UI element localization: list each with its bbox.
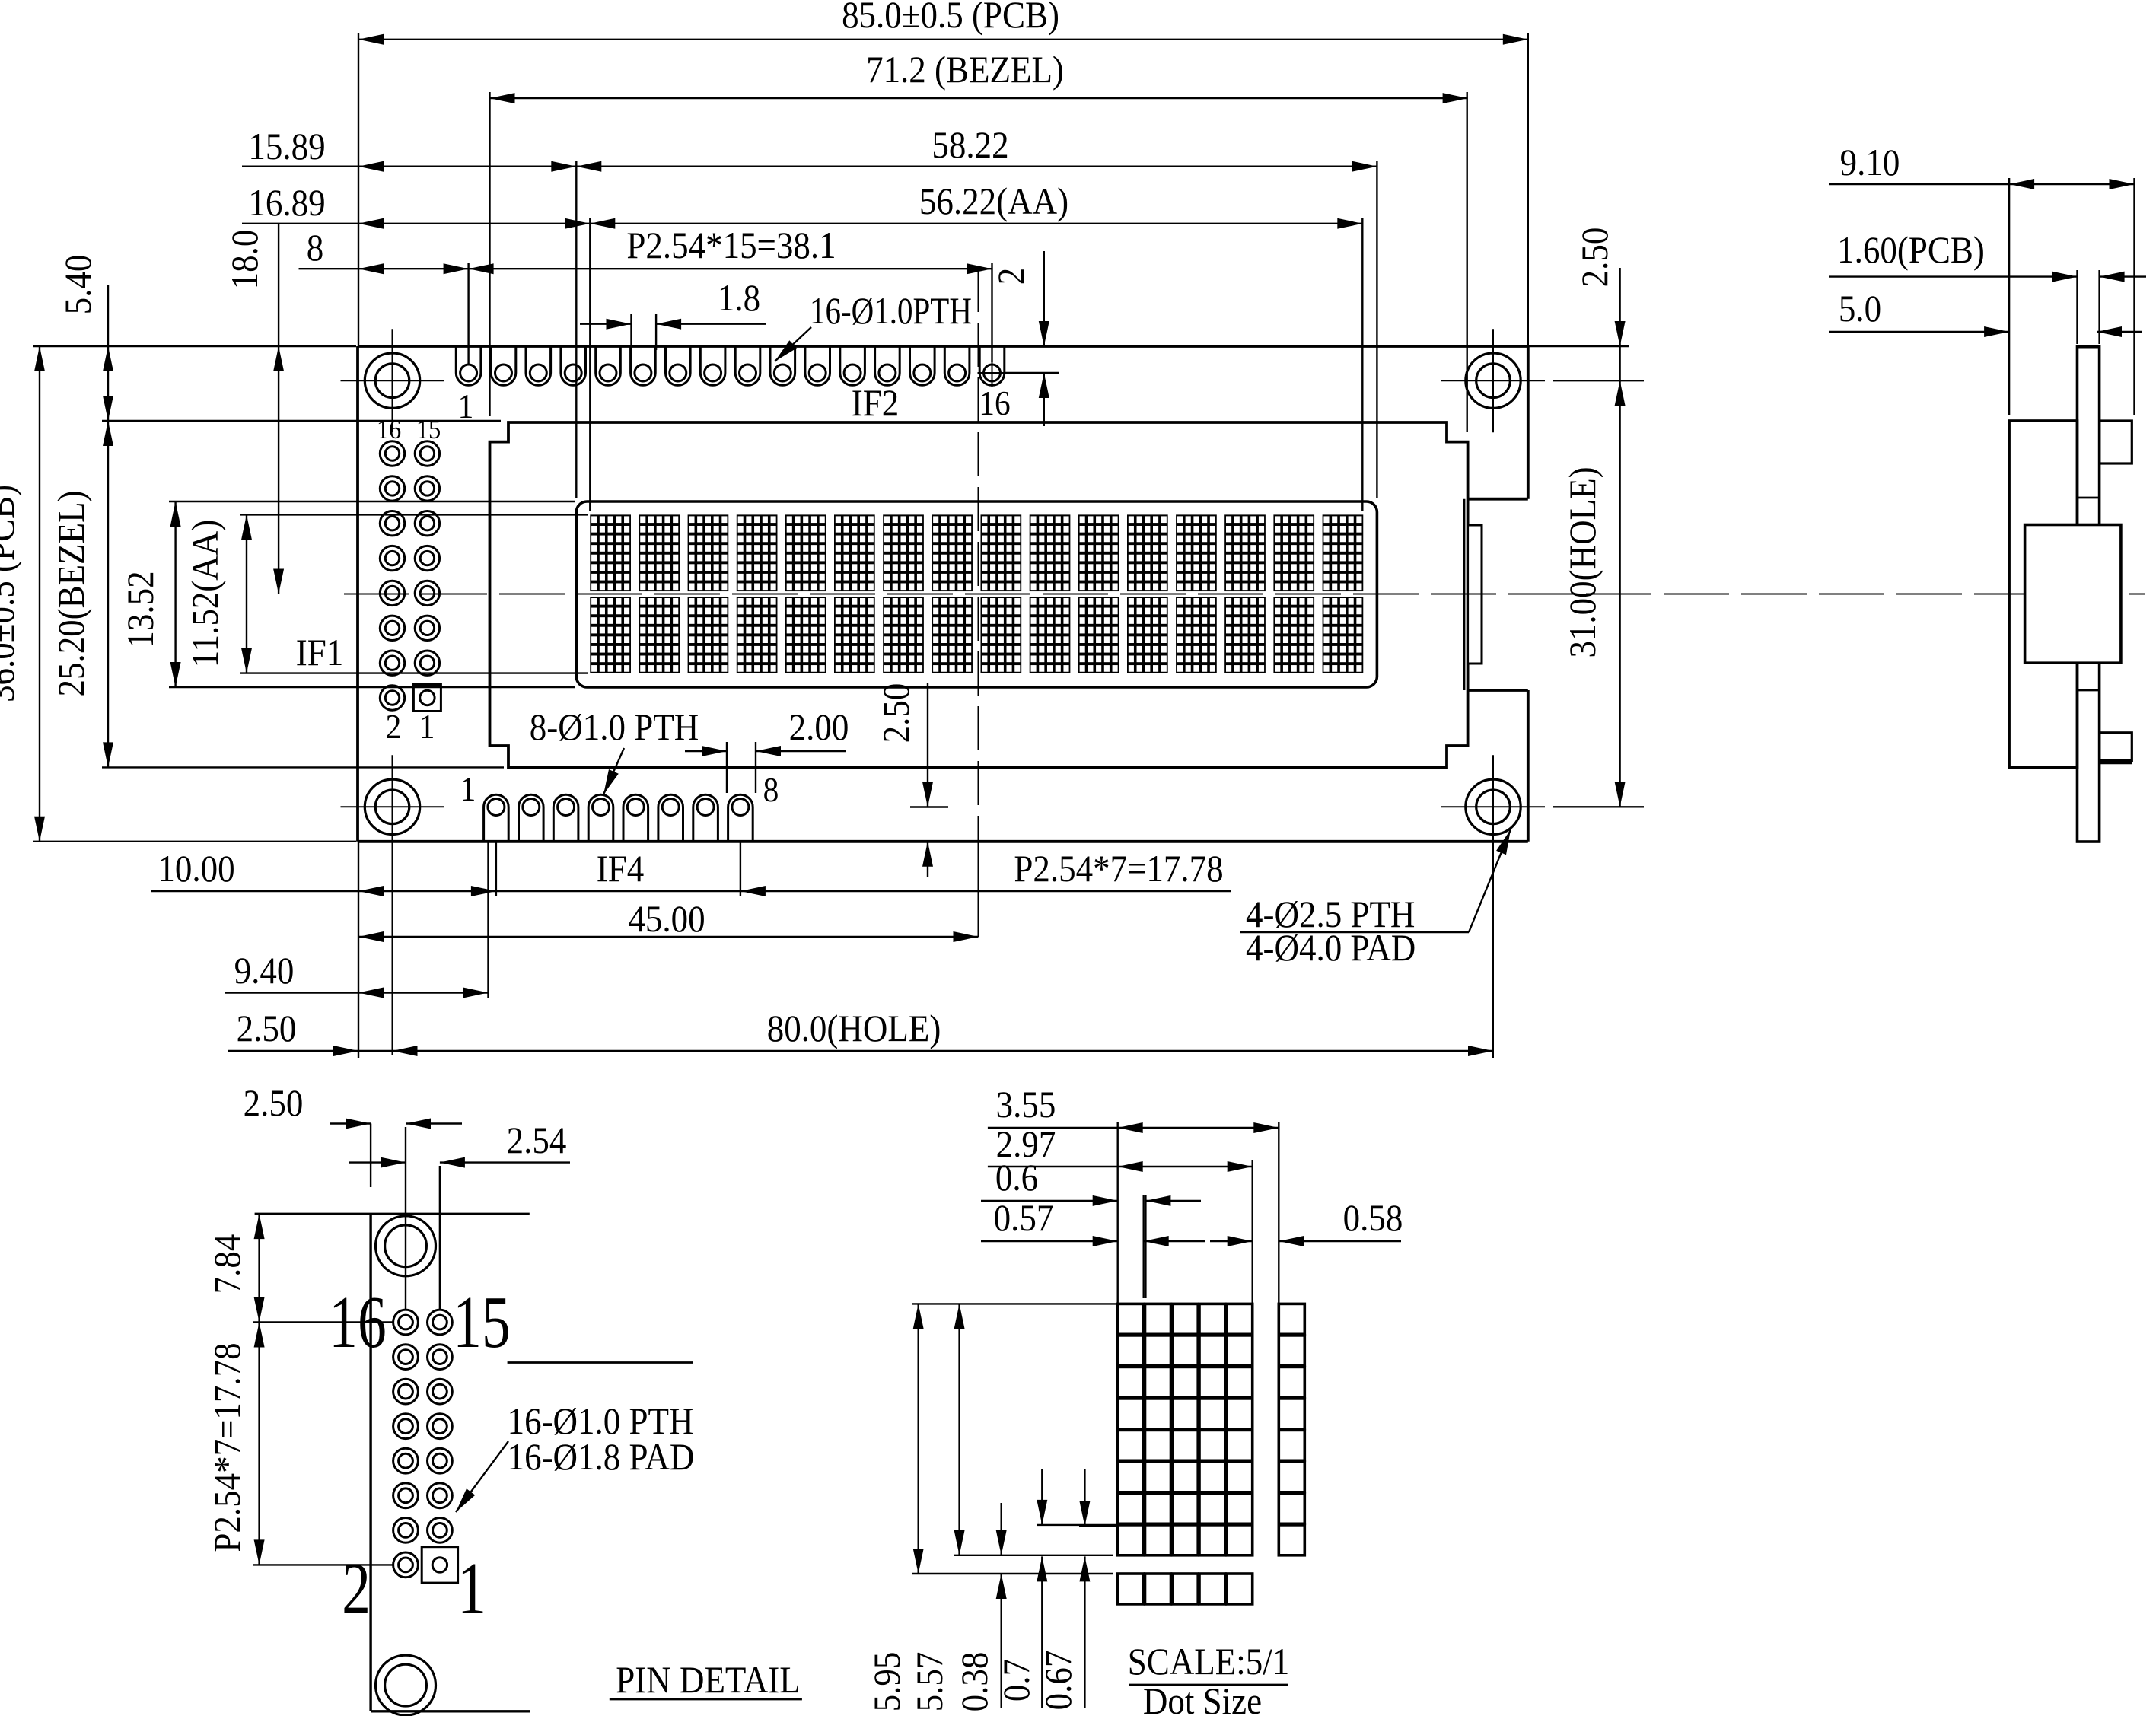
mounting hole bottom-right (2.5 PTH / 4.0 PAD)	[1466, 779, 1521, 834]
svg-text:1.8: 1.8	[718, 278, 760, 320]
IF2 pad 11	[805, 346, 830, 385]
pin detail pin 11 pad	[428, 1379, 453, 1404]
IF2 pad 16	[979, 346, 1005, 385]
svg-text:1: 1	[419, 708, 435, 746]
svg-text:4-Ø4.0 PAD: 4-Ø4.0 PAD	[1246, 928, 1416, 969]
dim 13.52 vertical	[174, 501, 176, 687]
pin detail pin 16 pad	[393, 1310, 419, 1335]
dim 2.50 (PCB top to hole center) and dim 31.00(HOLE) shared vertical line	[1619, 268, 1620, 807]
pin detail: reference line segment	[508, 1361, 693, 1364]
dim 5.95 (character pitch vertical)	[917, 1304, 919, 1574]
svg-text:0.58: 0.58	[1343, 1198, 1403, 1240]
IF4 pad 8	[728, 794, 753, 842]
svg-text:2: 2	[991, 268, 1033, 285]
svg-text:25.20(BEZEL): 25.20(BEZEL)	[51, 490, 93, 696]
svg-text:16-Ø1.8 PAD: 16-Ø1.8 PAD	[508, 1437, 695, 1479]
dot size detail: 5x8 dot grid	[1118, 1304, 1144, 1334]
svg-text:16.89: 16.89	[248, 183, 325, 224]
svg-text:13.52: 13.52	[120, 571, 162, 648]
dim 2.50 (IF4 pad row to PCB bottom) vertical	[910, 806, 948, 807]
dim 5.0 (bezel stack thickness)	[1829, 331, 2009, 333]
side view: elastomer connector tab block	[2025, 525, 2121, 664]
dim 1.60(PCB) thickness	[1829, 275, 2078, 277]
extension line bezel left edge (bottom)	[487, 842, 489, 998]
pin detail pin 14 pad	[393, 1345, 419, 1370]
dot size detail: adjacent column of next character	[1279, 1304, 1304, 1334]
svg-text:2.50: 2.50	[1575, 228, 1616, 288]
svg-text:1.60(PCB): 1.60(PCB)	[1837, 230, 1985, 272]
extension line IF2 pin16	[991, 263, 992, 362]
LCD glass edge at right connector notch	[1463, 499, 1465, 690]
dim 0.38 (cursor row gap)	[1000, 1503, 1002, 1555]
svg-text:P2.54*7=17.78: P2.54*7=17.78	[1014, 848, 1223, 890]
IF1 pin 9 pad	[415, 546, 439, 570]
dim 0.6 (dot pitch)	[981, 1200, 1118, 1202]
dim 71.2 (BEZEL)	[490, 97, 1468, 99]
extension line PCB top edge (left)	[33, 345, 356, 347]
pin detail pin 9 pad	[428, 1414, 453, 1439]
pin detail pin 15 pad	[428, 1310, 453, 1335]
pin detail pin 12 pad	[393, 1379, 419, 1404]
svg-text:9.40: 9.40	[234, 950, 295, 992]
dim 9.10 (module thickness)	[1829, 183, 2135, 185]
dot detail extension lines (left dims)	[912, 1303, 1118, 1304]
IF1 pin 2 pad	[380, 686, 404, 710]
IF4 pad 5	[623, 794, 648, 842]
extension line bezel right edge (top)	[1466, 92, 1467, 432]
svg-text:85.0±0.5 (PCB): 85.0±0.5 (PCB)	[842, 0, 1059, 37]
IF2 pad 16 center cross mark	[978, 372, 1007, 374]
pin detail pin 5 pad	[428, 1483, 453, 1508]
IF2 pad 1	[456, 346, 481, 385]
front view: PCB outline (85.0 x 36.0) with right-edge connector notch	[358, 345, 1528, 348]
display window opening (58.22 x 13.52) rounded rect	[576, 501, 1377, 687]
dim 0.67 (dot height)	[1084, 1469, 1085, 1527]
dim 18.0 (PCB top to display centerline)	[278, 224, 279, 594]
dot size detail: cursor row below	[1118, 1574, 1144, 1604]
IF1 pin 4 pad	[380, 651, 404, 675]
IF4 pad 4	[588, 794, 613, 842]
elastomer connector tab on bezel right edge	[1468, 525, 1482, 664]
dim P2.54*7=17.78 (IF4 pitch)	[496, 890, 1231, 892]
extension line display window bottom (left)	[169, 686, 575, 688]
dim 9.40 (PCB edge to bezel edge)	[225, 992, 489, 993]
IF4 pad 3	[553, 794, 578, 842]
extension line PCB top right corner	[1528, 345, 1629, 347]
pin detail: mounting hole bottom	[376, 1655, 436, 1715]
svg-text:56.22(AA): 56.22(AA)	[919, 181, 1068, 223]
dim 2 (PCB top to IF2 pad row) vertical	[1043, 251, 1045, 346]
dot detail extension lines (top dims)	[1116, 1122, 1118, 1304]
extension line display window left edge	[575, 161, 577, 498]
dim 25.20(BEZEL) vertical	[107, 421, 109, 767]
extension lines side PCB faces	[2076, 270, 2078, 344]
svg-text:0.67: 0.67	[1038, 1651, 1080, 1711]
svg-text:7.84: 7.84	[207, 1234, 249, 1294]
side view: bezel+LCD stack block (5.0 thick)	[2009, 421, 2077, 767]
svg-text:IF2: IF2	[852, 383, 899, 425]
dim 1.8 (IF2 pad width)	[630, 314, 632, 350]
IF1 pin 12 pad	[380, 511, 404, 536]
IF2 pad 14	[910, 346, 935, 385]
IF1 pin 13 pad	[415, 476, 439, 501]
pin detail extension lines pin columns	[405, 1127, 406, 1309]
pin detail dim 2.54 (col pitch)	[349, 1161, 406, 1163]
IF2 pad 13	[875, 346, 900, 385]
IF4 pad 7	[693, 794, 718, 842]
extension line side bezel front face	[2008, 178, 2010, 415]
pin detail pin 13 pad	[428, 1345, 453, 1370]
side view: IF2 pin header block (top rear)	[2100, 421, 2132, 463]
IF1 pin 8 pad	[380, 581, 404, 605]
svg-text:2.54: 2.54	[507, 1120, 567, 1162]
IF1 pin 6 pad	[380, 616, 404, 640]
dim 5.40 (PCB top to bezel top)	[107, 285, 109, 421]
svg-text:0.38: 0.38	[954, 1652, 996, 1712]
extension line bezel left edge (top)	[489, 92, 490, 416]
IF2 pad 9	[735, 346, 760, 385]
svg-text:Dot Size: Dot Size	[1143, 1681, 1262, 1716]
IF4 pad 2	[519, 794, 544, 842]
IF1 pin 10 pad	[380, 546, 404, 570]
bezel outline (71.2 x 25.20) with corner step tabs	[490, 422, 1468, 767]
pin detail: extension row 16	[253, 1321, 393, 1323]
dim 8 and dim P2.54*15=38.1 (shared line)	[299, 268, 992, 269]
svg-text:IF4: IF4	[597, 848, 645, 890]
dim 2.50 (PCB edge to hole center) and dim 80.0(HOLE) shared line	[228, 1050, 1493, 1052]
extension line bezel top edge (left)	[102, 420, 501, 422]
dim 11.52(AA) vertical	[246, 514, 247, 673]
svg-text:80.0(HOLE): 80.0(HOLE)	[767, 1008, 941, 1050]
pin detail: mounting hole top	[376, 1216, 436, 1276]
svg-text:45.00: 45.00	[628, 899, 705, 941]
IF1 pin 1 square pad	[413, 685, 441, 712]
IF1 pin 3 pad	[415, 651, 439, 675]
IF1 pin 5 pad	[415, 616, 439, 640]
svg-text:2.50: 2.50	[237, 1008, 297, 1050]
pin detail pin 7 pad	[428, 1448, 453, 1473]
svg-text:1: 1	[457, 1547, 486, 1629]
IF2 pad 4	[561, 346, 586, 385]
svg-text:71.2 (BEZEL): 71.2 (BEZEL)	[866, 49, 1064, 91]
dim 0.57 (dot width)	[981, 1240, 1118, 1242]
dim 3.55 (character pitch)	[988, 1127, 1279, 1129]
svg-text:0.57: 0.57	[994, 1198, 1054, 1240]
IF2 pad 12	[840, 346, 865, 385]
svg-text:16: 16	[979, 384, 1010, 422]
svg-text:16-Ø1.0PTH: 16-Ø1.0PTH	[810, 289, 972, 332]
dim 45.00 (PCB edge to display centerline)	[358, 936, 979, 938]
mounting hole bottom-left (2.5 PTH / 4.0 PAD)	[365, 779, 419, 834]
IF2 pad 10	[770, 346, 795, 385]
pin detail pin 2 pad	[393, 1552, 419, 1578]
IF2 pad 2	[491, 346, 516, 385]
svg-text:8-Ø1.0 PTH: 8-Ø1.0 PTH	[530, 707, 699, 749]
extension line hole center bottom-right	[1553, 806, 1644, 807]
extension line hole center top-right	[1553, 380, 1644, 381]
svg-text:5.40: 5.40	[58, 255, 100, 315]
pin detail pin 8 pad	[393, 1448, 419, 1473]
svg-text:36.0±0.5 (PCB): 36.0±0.5 (PCB)	[0, 485, 23, 702]
pin detail pin 4 pad	[393, 1518, 419, 1543]
svg-text:15.89: 15.89	[248, 126, 325, 168]
extension line PCB bottom edge (left)	[33, 841, 356, 842]
svg-text:P2.54*7=17.78: P2.54*7=17.78	[207, 1342, 249, 1552]
dim 0.58 (gap between characters)	[1210, 1240, 1253, 1242]
mounting hole top-right (2.5 PTH / 4.0 PAD)	[1466, 353, 1521, 408]
extension line PCB right edge (top)	[1527, 33, 1529, 346]
IF2 pad 3	[526, 346, 551, 385]
extension line side header rear face	[2133, 178, 2135, 415]
IF1 pin 14 pad	[380, 476, 404, 501]
svg-text:5.0: 5.0	[1839, 288, 1881, 330]
pin detail pin 10 pad	[393, 1414, 419, 1439]
IF2 pad 5	[596, 346, 621, 385]
dim 2.00 (IF4 pad width)	[726, 742, 728, 793]
svg-text:8: 8	[763, 771, 779, 809]
dim 0.7 (dot pitch vertical)	[1041, 1469, 1043, 1525]
svg-text:P2.54*15=38.1: P2.54*15=38.1	[626, 225, 836, 267]
svg-text:9.10: 9.10	[1840, 142, 1900, 184]
svg-text:SCALE:5/1: SCALE:5/1	[1128, 1641, 1289, 1683]
svg-text:58.22: 58.22	[932, 125, 1008, 167]
pin detail dim 2.50 (edge to pin col)	[330, 1122, 371, 1124]
side view: edge lines of connector notch on PCB bar	[2078, 497, 2100, 499]
pin detail pin 6 pad	[393, 1483, 419, 1508]
extension line AA bottom (left)	[240, 672, 588, 673]
dim 36.0±0.5 (PCB) vertical	[39, 346, 40, 842]
vertical centerline of display	[978, 268, 979, 842]
pin detail pin 1 square pad	[422, 1547, 457, 1583]
pin detail dim P2.54*7=17.78 vertical	[258, 1323, 260, 1565]
extension line bezel bottom edge (left)	[102, 766, 504, 768]
dim 85.0±0.5 (PCB)	[358, 39, 1528, 40]
IF1 pin 11 pad	[415, 511, 439, 536]
IF1 pin 7 pad	[415, 581, 439, 605]
svg-text:5.57: 5.57	[909, 1652, 951, 1712]
dim 5.57 (character height)	[958, 1304, 960, 1555]
svg-text:15: 15	[416, 414, 441, 444]
IF4 pad 1	[484, 794, 509, 842]
dim 2.97 (character width)	[988, 1166, 1253, 1167]
extension line PCB left edge (bottom)	[358, 842, 359, 1058]
dim 15.89 and dim 58.22 (shared line)	[242, 165, 1377, 167]
pin detail: extension row 2	[253, 1564, 393, 1565]
extension line IF4 pin8 (bottom)	[740, 842, 741, 896]
extension line display window top (left)	[169, 501, 575, 502]
svg-text:31.00(HOLE): 31.00(HOLE)	[1562, 466, 1604, 657]
dim 16.89 and dim 56.22(AA) (shared line)	[242, 223, 1362, 224]
svg-text:5.95: 5.95	[867, 1652, 909, 1712]
extension line AA left edge	[589, 218, 591, 511]
svg-text:2: 2	[386, 708, 402, 746]
IF2 pad 6	[631, 346, 656, 385]
pin detail pin 3 pad	[428, 1518, 453, 1543]
extension line IF2 pin1	[467, 263, 469, 364]
pin detail: board edge partial outline	[255, 1213, 530, 1215]
horizontal centerline of display	[344, 594, 2145, 595]
extension line AA top (left)	[240, 514, 588, 515]
svg-text:PIN DETAIL: PIN DETAIL	[616, 1660, 801, 1702]
svg-text:15: 15	[453, 1281, 511, 1363]
extension line PCB left edge (top)	[358, 33, 359, 346]
extension line AA right edge	[1361, 218, 1363, 511]
svg-text:11.52(AA): 11.52(AA)	[185, 520, 227, 667]
svg-text:18.0: 18.0	[225, 230, 266, 290]
mounting hole top-left (2.5 PTH / 4.0 PAD)	[365, 353, 419, 408]
svg-text:1: 1	[460, 770, 476, 808]
IF1 pin 16 pad	[380, 441, 404, 466]
IF4 pad 6	[658, 794, 683, 842]
dim 10.00 (PCB edge to IF4 pin1)	[151, 890, 496, 892]
side view: PCB cross-section bar (1.60 thick)	[2078, 347, 2100, 842]
svg-text:0.6: 0.6	[995, 1157, 1038, 1199]
svg-text:IF1: IF1	[296, 632, 343, 674]
side view: IF4 pin header block (bottom rear)	[2100, 733, 2132, 761]
svg-text:1: 1	[458, 387, 474, 425]
svg-text:2.00: 2.00	[789, 707, 849, 749]
svg-text:2.50: 2.50	[876, 683, 918, 743]
svg-text:0.7: 0.7	[996, 1659, 1038, 1702]
svg-text:16: 16	[329, 1281, 387, 1363]
IF2 pad 7	[666, 346, 691, 385]
svg-text:16: 16	[377, 414, 401, 444]
IF2 pad 8	[700, 346, 725, 385]
svg-text:8: 8	[307, 228, 323, 269]
pin detail dim 7.84 vertical	[258, 1214, 260, 1322]
svg-text:2: 2	[342, 1547, 371, 1629]
extension line IF4 pin1 (bottom)	[495, 842, 497, 896]
svg-text:3.55: 3.55	[996, 1084, 1056, 1126]
IF2 pad 15	[944, 346, 970, 385]
extension line display window right edge	[1376, 161, 1377, 498]
svg-text:2.50: 2.50	[244, 1083, 304, 1125]
IF1 pin 15 pad	[415, 441, 439, 466]
svg-text:10.00: 10.00	[158, 848, 234, 890]
